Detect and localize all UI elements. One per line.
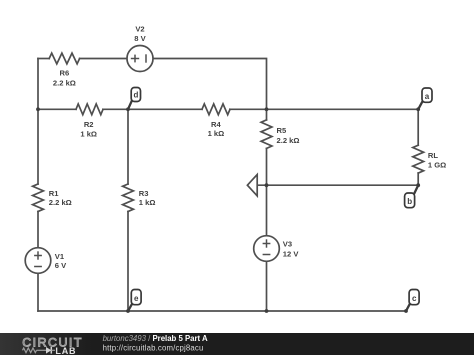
svg-text:1 kΩ: 1 kΩ [139,198,156,207]
svg-text:R3: R3 [139,189,149,198]
svg-text:R4: R4 [211,120,221,129]
svg-text:e: e [134,294,139,303]
svg-text:burtonc3493 / Prelab 5 Part A: burtonc3493 / Prelab 5 Part A [103,334,208,343]
svg-text:R6: R6 [60,69,70,78]
svg-text:LAB: LAB [55,346,76,355]
svg-text:d: d [133,90,138,99]
svg-text:2.2 kΩ: 2.2 kΩ [49,198,72,207]
svg-text:12 V: 12 V [283,250,300,259]
svg-text:8 V: 8 V [134,34,146,43]
svg-text:6 V: 6 V [55,261,67,270]
svg-text:V3: V3 [283,240,292,249]
svg-text:c: c [412,294,417,303]
svg-text:R5: R5 [277,126,287,135]
svg-text:b: b [407,197,412,206]
svg-text:2.2 kΩ: 2.2 kΩ [53,78,76,87]
svg-text:1 kΩ: 1 kΩ [208,129,225,138]
svg-text:V2: V2 [135,24,144,33]
svg-text:1 GΩ: 1 GΩ [428,160,446,169]
svg-text:RL: RL [428,151,438,160]
svg-text:R1: R1 [49,189,59,198]
svg-text:V1: V1 [55,252,65,261]
svg-text:2.2 kΩ: 2.2 kΩ [277,136,300,145]
svg-text:http://circuitlab.com/cpj8acu: http://circuitlab.com/cpj8acu [103,343,204,352]
svg-text:R2: R2 [84,120,94,129]
svg-text:a: a [425,92,430,101]
svg-text:1 kΩ: 1 kΩ [80,130,97,139]
